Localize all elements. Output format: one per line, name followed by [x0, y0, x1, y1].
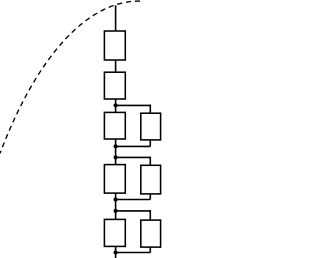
box 4 (pair1 right) [141, 113, 161, 140]
wire branch 3 vertical [149, 210, 151, 220]
box 1 (top) [104, 31, 125, 60]
wire join 2 horizontal [116, 199, 151, 201]
node join 1 [114, 144, 118, 148]
wire pair1 right stub down [149, 140, 151, 147]
wire pair1 left down [115, 139, 117, 165]
box 5 (pair2 left) [104, 165, 125, 194]
node split 3 [114, 209, 118, 213]
wire branch 1 horizontal [116, 104, 151, 106]
wire branch 3 horizontal [116, 210, 151, 212]
box 8 (pair3 right) [141, 220, 161, 247]
wire pair2 right stub down [149, 194, 151, 200]
wire stem top [115, 5, 117, 31]
wire box1-box2 [115, 60, 117, 72]
wire branch 1 vertical [149, 105, 151, 114]
box 2 [104, 72, 125, 99]
wire box2 down to pair1 [115, 99, 117, 112]
wire pair3 left down to bottom edge [115, 246, 117, 258]
wire join 3 horizontal [116, 252, 151, 254]
box 6 (pair2 right) [141, 165, 161, 194]
wire branch 2 horizontal [116, 156, 151, 158]
box 3 (pair1 left) [104, 112, 125, 139]
node join 3 [114, 250, 118, 254]
box 7 (pair3 left) [104, 219, 125, 246]
dashed arc boundary [0, 1, 140, 153]
wire pair3 right stub down [149, 247, 151, 252]
node join 2 [114, 197, 118, 201]
node split 2 [114, 155, 118, 159]
wire join 1 horizontal [116, 145, 151, 147]
wire pair2 left down [115, 193, 117, 219]
wire branch 2 vertical [149, 157, 151, 166]
node split 1 [114, 103, 118, 107]
